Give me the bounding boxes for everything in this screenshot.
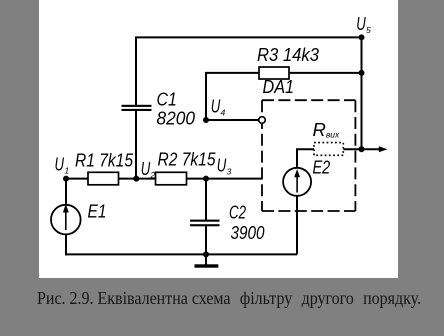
wire ground stub — [205, 254, 207, 264]
source E1 — [51, 204, 81, 234]
op-amp input open circle — [259, 117, 266, 124]
wire U4 horizontal — [206, 119, 258, 121]
figure caption — [37, 288, 421, 309]
output arrowhead — [379, 146, 388, 152]
svg-text:R1 7k15: R1 7k15 — [75, 150, 134, 171]
svg-text:3: 3 — [227, 167, 232, 177]
capacitor C2 — [190, 220, 220, 227]
wire E2 riser bottom — [296, 196, 298, 255]
svg-text:U: U — [211, 96, 221, 117]
svg-text:1: 1 — [64, 166, 69, 176]
svg-text:8200: 8200 — [157, 108, 196, 129]
white schematic panel — [39, 0, 398, 278]
svg-text:5: 5 — [366, 25, 371, 35]
svg-text:C1: C1 — [157, 89, 177, 110]
node U2 junction — [133, 176, 139, 182]
svg-text:R3 14k3: R3 14k3 — [257, 44, 320, 65]
svg-text:U: U — [356, 13, 366, 34]
wire main middle horizontal — [66, 178, 262, 180]
resistor Rvyh dotted box — [314, 143, 343, 156]
wire C2 lower vertical — [205, 226, 207, 254]
resistor R3 — [259, 67, 289, 79]
ground — [195, 264, 219, 267]
svg-text:Rвих: Rвих — [313, 119, 341, 140]
svg-text:2: 2 — [149, 170, 155, 180]
svg-text:U: U — [217, 155, 227, 176]
wire E1 riser top — [65, 179, 67, 205]
wire bottom horizontal — [65, 253, 297, 255]
capacitor C1 — [122, 105, 152, 111]
node U3 junction — [203, 176, 209, 182]
wire R3 branch (U4 riser + horizontal to right rail) — [206, 73, 362, 120]
svg-text:3900: 3900 — [231, 222, 266, 243]
svg-text:R2 7k15: R2 7k15 — [158, 149, 217, 170]
svg-text:C2: C2 — [229, 202, 247, 223]
svg-text:DA1: DA1 — [263, 76, 295, 97]
wire E2 riser top — [297, 149, 314, 168]
wire output with arrow — [343, 148, 380, 150]
resistor R2 — [156, 172, 187, 185]
wire E1 riser bottom — [65, 234, 67, 255]
wire top horizontal — [136, 37, 362, 106]
node bottom ground junction — [203, 251, 209, 257]
wire C2 upper vertical — [205, 179, 207, 221]
svg-text:E1: E1 — [88, 201, 107, 222]
node output junction — [359, 146, 365, 152]
svg-text:U: U — [141, 158, 151, 179]
node U1 junction — [63, 176, 69, 182]
resistor R1 — [88, 172, 119, 185]
wire right rail vertical — [361, 37, 363, 149]
source E2 — [283, 168, 311, 196]
svg-text:U: U — [55, 154, 65, 175]
wire C1 lower vertical — [135, 110, 137, 179]
node U4 junction — [203, 117, 209, 123]
svg-text:E2: E2 — [313, 157, 331, 178]
svg-text:4: 4 — [221, 108, 226, 118]
node U5 junction — [359, 34, 365, 40]
node R3 right junction — [359, 70, 365, 76]
op-amp DA1 dashed box — [262, 100, 355, 211]
